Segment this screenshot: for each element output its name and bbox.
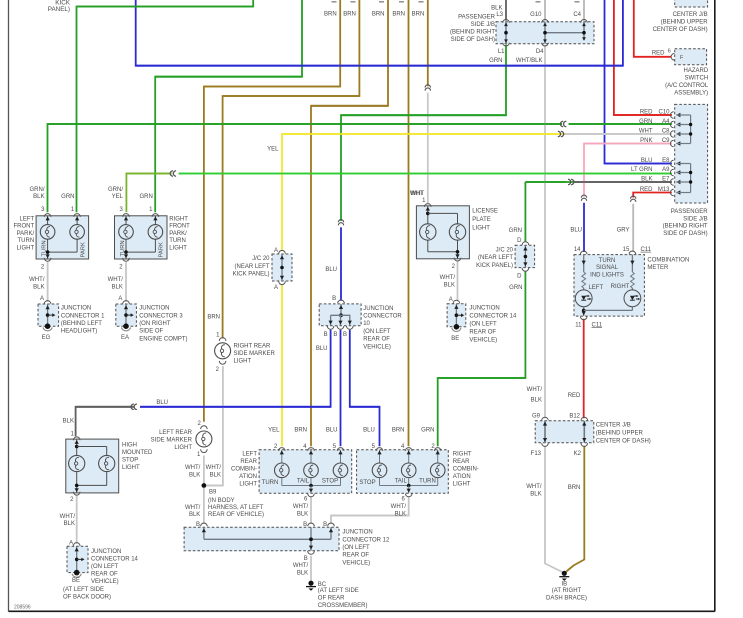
svg-text:11: 11	[575, 322, 582, 328]
svg-text:ATION: ATION	[453, 474, 471, 480]
svg-text:RED: RED	[640, 110, 653, 116]
wire BLU from JC10 middle to left rear combination pin 5	[340, 330, 342, 446]
right rear combination light	[357, 450, 449, 493]
svg-text:WHT/: WHT/	[527, 387, 543, 393]
wire GRY from connector to combination meter pin 15	[632, 204, 634, 252]
center J/B partial box (top right)	[675, 0, 708, 7]
svg-text:JUNCTION: JUNCTION	[469, 305, 499, 311]
svg-text:LIGHT: LIGHT	[169, 246, 187, 252]
svg-text:BE: BE	[72, 578, 80, 584]
svg-text:CONNECTOR 14: CONNECTOR 14	[469, 313, 517, 319]
svg-text:TURN: TURN	[120, 240, 126, 256]
svg-text:E7: E7	[662, 177, 670, 183]
svg-text:STOP: STOP	[322, 479, 338, 485]
svg-text:BC: BC	[318, 582, 327, 588]
wire WHT to passenger J/B pin C8	[565, 133, 672, 135]
passenger side J/B (right)	[675, 104, 708, 203]
svg-text:BRN: BRN	[324, 11, 337, 17]
svg-text:REAR OF VEHICLE): REAR OF VEHICLE)	[208, 512, 264, 518]
svg-text:GRN: GRN	[139, 194, 152, 200]
svg-text:WHT/: WHT/	[206, 465, 222, 471]
svg-text:GRN: GRN	[61, 194, 74, 200]
svg-text:WHT/: WHT/	[526, 484, 542, 490]
svg-text:LIGHT: LIGHT	[239, 482, 257, 488]
svg-text:WHT/: WHT/	[293, 563, 309, 569]
svg-text:G9: G9	[532, 414, 541, 420]
svg-text:VEHICLE): VEHICLE)	[91, 579, 119, 585]
wire BLU from connector to junction connector 10 pin B	[340, 227, 342, 300]
svg-text:BRN: BRN	[392, 11, 405, 17]
svg-text:BLK: BLK	[641, 177, 652, 183]
svg-text:A: A	[449, 297, 453, 303]
left rear combination light	[259, 450, 352, 493]
svg-text:J/C 20: J/C 20	[252, 256, 270, 262]
svg-text:JUNCTION: JUNCTION	[91, 549, 121, 555]
wire GRN/YEL from right front pin 3 to inline connector	[126, 174, 171, 213]
svg-text:LEFT: LEFT	[242, 452, 257, 458]
wire BLU from JC10 to high-mount stop light run	[140, 330, 331, 407]
svg-text:GRN: GRN	[639, 119, 652, 125]
svg-text:VEHICLE): VEHICLE)	[363, 344, 391, 350]
wire YEL from J/B C8 run down to left rear combination pin 2	[282, 134, 564, 251]
svg-text:6: 6	[668, 48, 671, 54]
wire BLU main horizontal (top)	[136, 0, 623, 66]
svg-text:TURN: TURN	[419, 479, 436, 485]
svg-text:B9: B9	[209, 490, 217, 496]
wire RED to passenger J/B pin C10	[614, 0, 672, 115]
svg-text:BLU: BLU	[326, 428, 338, 434]
svg-text:15: 15	[623, 247, 630, 253]
svg-text:(BEHIND RIGHT: (BEHIND RIGHT	[450, 30, 495, 36]
page border right	[714, 0, 716, 612]
wire WHT/BLK center J/B F13 to ground IB	[545, 446, 562, 572]
svg-text:CROSSMEMBER): CROSSMEMBER)	[318, 603, 368, 609]
svg-text:BRN: BRN	[294, 428, 307, 434]
svg-text:(BEHIND LEFT: (BEHIND LEFT	[61, 321, 102, 327]
svg-text:C11: C11	[641, 247, 652, 253]
wire BLU from connector to combination meter pin 14	[583, 203, 585, 252]
wire GRN from J/C 20 (D) down to right rear combination pin 2	[438, 271, 526, 446]
svg-text:SWITCH: SWITCH	[685, 76, 709, 82]
svg-text:GRN/: GRN/	[108, 187, 123, 193]
wire GRN from passenger J/B pin L1 to junction connector 10 run	[341, 45, 506, 221]
svg-text:B: B	[324, 332, 328, 338]
svg-text:B: B	[343, 332, 347, 338]
svg-text:TURN: TURN	[18, 238, 35, 244]
wire BRN 1 from top to left rear side marker pin 2	[204, 0, 340, 422]
svg-text:A4: A4	[662, 119, 670, 125]
svg-text:E8: E8	[662, 158, 670, 164]
svg-text:(NEAR LEFT: (NEAR LEFT	[234, 264, 269, 270]
svg-text:BLK: BLK	[530, 492, 541, 498]
svg-text:BLU: BLU	[316, 346, 328, 352]
svg-text:LIGHT: LIGHT	[174, 445, 192, 451]
svg-text:A: A	[274, 248, 278, 254]
svg-text:(AT LEFT SIDE: (AT LEFT SIDE	[318, 588, 359, 594]
wire BRN center J/B K2 to ground IB	[566, 446, 584, 572]
svg-text:K2: K2	[574, 451, 582, 457]
svg-text:PARK: PARK	[159, 242, 165, 257]
svg-text:YEL: YEL	[267, 146, 279, 152]
svg-text:BLK: BLK	[33, 285, 44, 291]
svg-text:PANEL): PANEL)	[48, 6, 70, 13]
svg-text:JUNCTION: JUNCTION	[363, 306, 393, 312]
wire WHT/BLK left rear side marker pin 1 to splice B9	[203, 456, 205, 486]
svg-text:CENTER J/B: CENTER J/B	[596, 423, 631, 429]
wire BRN 4 from top to right rear combination pin 4	[408, 0, 410, 446]
splice B9	[202, 483, 207, 488]
svg-text:(BEHIND RIGHT: (BEHIND RIGHT	[663, 224, 708, 230]
wire WHT from connector to license plate light pin 1	[427, 93, 429, 204]
svg-text:YEL: YEL	[112, 194, 124, 200]
wire GRN second loop to right front park/turn pin 1	[155, 0, 302, 212]
high mounted stop light	[66, 439, 119, 493]
svg-text:CONNECTOR: CONNECTOR	[363, 314, 402, 320]
svg-text:COMBINATION: COMBINATION	[647, 257, 689, 263]
svg-text:BLK: BLK	[210, 472, 221, 478]
svg-text:WHT/BLK: WHT/BLK	[516, 58, 543, 64]
svg-text:WHT/: WHT/	[108, 277, 124, 283]
wire BLU to passenger J/B pin E8	[605, 0, 672, 164]
svg-text:PASSENGER: PASSENGER	[458, 15, 496, 21]
svg-text:LICENSE: LICENSE	[472, 208, 498, 214]
svg-text:B12: B12	[569, 414, 580, 420]
ground IB	[562, 571, 567, 576]
svg-text:METER: METER	[647, 265, 669, 271]
svg-text:STOP: STOP	[122, 457, 138, 463]
svg-text:BLU: BLU	[570, 228, 582, 234]
svg-text:STOP: STOP	[359, 480, 375, 486]
svg-text:BE: BE	[451, 336, 459, 342]
svg-text:REAR OF: REAR OF	[342, 553, 369, 559]
svg-text:REAR OF: REAR OF	[91, 571, 118, 577]
svg-text:WHT: WHT	[411, 191, 425, 197]
svg-text:(IN BODY: (IN BODY	[208, 498, 235, 504]
svg-text:(ON LEFT: (ON LEFT	[363, 329, 391, 335]
svg-text:SIDE MARKER: SIDE MARKER	[151, 438, 193, 444]
wire WHT/BLK splice B9 to junction connector 12 pin B	[203, 486, 205, 525]
svg-text:B: B	[304, 556, 308, 562]
svg-text:RIGHT: RIGHT	[453, 452, 472, 458]
svg-text:D4: D4	[536, 49, 544, 55]
svg-text:BLK: BLK	[189, 512, 200, 518]
svg-text:C8: C8	[662, 129, 670, 135]
inline connector on GRN wire at A4 run	[560, 121, 563, 126]
wire BRN 3 from top to left rear combination pin 4	[311, 0, 388, 446]
svg-text:F13: F13	[531, 451, 542, 457]
svg-text:CONNECTOR 14: CONNECTOR 14	[91, 556, 139, 562]
svg-text:L1: L1	[498, 49, 505, 55]
svg-text:RIGHT: RIGHT	[611, 284, 630, 290]
svg-text:CENTER OF DASH): CENTER OF DASH)	[596, 439, 651, 445]
wire GRN from connector to J/C 20 (D)	[524, 182, 526, 242]
svg-text:ATION: ATION	[239, 474, 257, 480]
svg-text:C4: C4	[573, 12, 581, 18]
inline connector GRN to BLK	[568, 179, 571, 184]
svg-text:SIDE OF DASH): SIDE OF DASH)	[451, 37, 495, 43]
inline connector BLU to BLK	[131, 404, 134, 409]
svg-text:GRN: GRN	[489, 58, 502, 64]
svg-text:ENGINE COMPT): ENGINE COMPT)	[139, 336, 187, 342]
svg-text:(ON LEFT: (ON LEFT	[469, 321, 497, 327]
svg-text:FRONT: FRONT	[169, 224, 190, 230]
svg-text:(A/C CONTROL: (A/C CONTROL	[665, 83, 709, 89]
svg-text:FRONT: FRONT	[14, 224, 35, 230]
svg-text:RED: RED	[652, 51, 665, 57]
svg-text:OF REAR: OF REAR	[318, 596, 345, 602]
svg-text:SIDE OF DASH): SIDE OF DASH)	[663, 231, 707, 237]
wire RED from passenger J/B pin M13	[633, 193, 672, 198]
svg-text:SIDE OF: SIDE OF	[139, 329, 163, 335]
svg-text:(AT RIGHT: (AT RIGHT	[552, 588, 582, 594]
svg-text:REAR OF: REAR OF	[363, 337, 390, 343]
svg-text:REAR OF: REAR OF	[469, 329, 496, 335]
inline connector symbols (overlay)	[561, 121, 564, 126]
svg-text:LEFT REAR: LEFT REAR	[159, 430, 193, 436]
wire BRN 2 from top to right rear side marker pin 1	[223, 0, 360, 339]
svg-text:GRN: GRN	[509, 285, 522, 291]
svg-text:GRN: GRN	[421, 428, 434, 434]
svg-text:SIDE J/B: SIDE J/B	[471, 22, 495, 28]
wire to passenger J/B pin C4	[583, 0, 585, 21]
svg-text:WHT/: WHT/	[391, 504, 407, 510]
svg-text:(BEHIND UPPER: (BEHIND UPPER	[661, 20, 709, 26]
svg-text:WHT/: WHT/	[440, 275, 456, 281]
wire WHT/BLK license plate pin 2 to junction connector 14	[457, 262, 459, 301]
svg-text:BRN: BRN	[568, 485, 581, 491]
combination meter	[574, 255, 644, 317]
cut-off labels at top edge	[332, 1, 337, 3]
right front park/turn light	[115, 216, 168, 259]
wire GRN top-left loop to left front park/turn pin 1	[77, 0, 254, 212]
wire WHT/BLK right rear side marker pin 2 to splice B9	[204, 366, 223, 486]
svg-text:BLU: BLU	[641, 158, 653, 164]
svg-text:BLK: BLK	[189, 472, 200, 478]
svg-text:VEHICLE): VEHICLE)	[342, 560, 370, 566]
svg-text:CONNECTOR 12: CONNECTOR 12	[342, 537, 390, 543]
svg-text:(AT LEFT SIDE: (AT LEFT SIDE	[63, 587, 104, 593]
svg-text:PARK/: PARK/	[169, 231, 187, 237]
svg-text:SIDE J/B: SIDE J/B	[683, 216, 707, 222]
wire WHT/BLK stop light pin 2 to junction connector 14	[76, 495, 78, 543]
svg-text:HARNESS, AT LEFT: HARNESS, AT LEFT	[208, 505, 264, 511]
svg-text:HIGH: HIGH	[122, 442, 137, 448]
svg-text:RIGHT REAR: RIGHT REAR	[234, 343, 272, 349]
svg-text:GRN/: GRN/	[30, 187, 45, 193]
svg-text:D: D	[517, 273, 522, 279]
svg-text:PARK: PARK	[80, 242, 86, 257]
svg-text:SIGNAL: SIGNAL	[596, 265, 619, 271]
ground BC	[308, 581, 313, 586]
svg-text:LEFT: LEFT	[588, 285, 603, 291]
svg-text:BLK: BLK	[297, 571, 308, 577]
svg-text:HEADLIGHT): HEADLIGHT)	[61, 329, 97, 335]
svg-text:JUNCTION: JUNCTION	[139, 306, 169, 312]
svg-text:PNK: PNK	[640, 138, 652, 144]
svg-text:BLK: BLK	[297, 511, 308, 517]
page border bottom	[9, 610, 715, 612]
svg-text:TAIL: TAIL	[395, 479, 408, 485]
svg-text:TURN: TURN	[42, 240, 48, 256]
svg-text:A: A	[118, 296, 122, 302]
wire WHT/BLK right front pin 2 to junction connector 3	[125, 262, 127, 302]
svg-text:208596: 208596	[14, 604, 31, 610]
svg-text:WHT/: WHT/	[293, 504, 309, 510]
svg-text:LIGHT: LIGHT	[17, 246, 35, 252]
svg-text:C11: C11	[592, 322, 603, 328]
svg-text:(ON LEFT: (ON LEFT	[91, 564, 119, 570]
svg-text:BRN: BRN	[207, 315, 220, 321]
svg-text:J/C 20: J/C 20	[496, 247, 514, 253]
svg-text:A: A	[69, 540, 73, 546]
svg-text:LEFT: LEFT	[20, 216, 35, 222]
svg-text:COMBIN-: COMBIN-	[231, 467, 257, 473]
svg-text:CENTER OF DASH): CENTER OF DASH)	[653, 27, 708, 33]
svg-text:(NEAR LEFT: (NEAR LEFT	[478, 255, 513, 261]
svg-text:EG: EG	[42, 335, 51, 341]
svg-text:(ON RIGHT: (ON RIGHT	[139, 321, 171, 327]
svg-text:BLK: BLK	[33, 194, 44, 200]
wire BLK from passenger J/B pin E7	[575, 181, 672, 183]
svg-text:ASSEMBLY): ASSEMBLY)	[674, 91, 708, 97]
svg-text:IND LIGHTS: IND LIGHTS	[590, 272, 624, 278]
svg-text:GRY: GRY	[617, 228, 630, 234]
svg-text:RED: RED	[568, 393, 581, 399]
wire overlay horizontals	[77, 6, 254, 8]
svg-text:REAR: REAR	[453, 459, 470, 465]
svg-text:BLK: BLK	[531, 398, 542, 404]
inline connector BRN to WHT	[425, 85, 430, 88]
svg-text:CENTER J/B: CENTER J/B	[673, 12, 708, 18]
svg-text:RED: RED	[640, 187, 653, 193]
svg-text:BRN: BRN	[392, 428, 405, 434]
svg-text:VEHICLE): VEHICLE)	[469, 337, 497, 343]
svg-text:BLK: BLK	[63, 419, 74, 425]
svg-text:CONNECTOR 3: CONNECTOR 3	[139, 313, 183, 319]
wire RED to hazard switch pin 6	[634, 0, 671, 57]
svg-text:WHT/: WHT/	[185, 505, 201, 511]
wire WHT/BLK JC12 to ground BC	[310, 556, 312, 581]
svg-text:BLK: BLK	[64, 521, 75, 527]
svg-text:WHT/: WHT/	[185, 465, 201, 471]
svg-text:BLK: BLK	[444, 283, 455, 289]
svg-text:C9: C9	[662, 138, 670, 144]
svg-text:B: B	[333, 332, 337, 338]
svg-text:IB: IB	[561, 582, 567, 588]
svg-text:LIGHT: LIGHT	[472, 225, 490, 231]
svg-text:JUNCTION: JUNCTION	[61, 306, 91, 312]
inline connector YEL to WHT	[558, 131, 561, 136]
wire BRN 5 from top to inline connector	[427, 0, 429, 86]
wire RED from combination meter pin 11 to center J/B pin B12	[583, 319, 585, 418]
svg-text:(ON LEFT: (ON LEFT	[342, 545, 370, 551]
wire PNK from passenger J/B pin C9	[584, 144, 672, 197]
svg-text:TURN: TURN	[169, 238, 186, 244]
page border left	[8, 0, 10, 612]
svg-text:A: A	[40, 296, 44, 302]
inline connector on LT GRN wire	[170, 171, 173, 176]
svg-text:PARK/: PARK/	[17, 231, 35, 237]
wire WHT/BLK left front pin 2 to junction connector 1	[47, 262, 49, 302]
svg-text:10: 10	[363, 321, 370, 327]
svg-text:(BEHIND UPPER: (BEHIND UPPER	[596, 431, 644, 437]
svg-text:CONNECTOR 1: CONNECTOR 1	[61, 313, 105, 319]
left rear side marker light	[201, 426, 208, 429]
hazard switch (A/C control assembly)	[675, 49, 707, 65]
svg-text:BRN: BRN	[372, 11, 385, 17]
wire LT GRN to passenger J/B pin A9	[179, 173, 672, 175]
svg-text:TAIL: TAIL	[297, 479, 310, 485]
svg-text:OF BACK DOOR): OF BACK DOOR)	[63, 594, 111, 600]
svg-text:LIGHT: LIGHT	[122, 465, 140, 471]
svg-text:HAZARD: HAZARD	[684, 68, 709, 74]
left front park/turn light	[36, 216, 89, 259]
svg-text:KICK PANEL): KICK PANEL)	[233, 271, 270, 277]
svg-text:TURN: TURN	[262, 480, 279, 486]
wire to passenger J/B pin G10	[544, 0, 546, 21]
svg-text:WHT: WHT	[639, 129, 653, 135]
wire GRN continues to passenger J/B pin A4	[569, 123, 672, 125]
svg-text:MOUNTED: MOUNTED	[122, 450, 153, 456]
wire WHT/BLK from passenger J/B D4 down to center J/B pin G9	[544, 45, 546, 418]
svg-text:M13: M13	[658, 187, 670, 193]
svg-text:G10: G10	[530, 12, 542, 18]
svg-text:PLATE: PLATE	[472, 217, 491, 223]
passenger side J/B (top)	[496, 22, 594, 44]
svg-text:PASSENGER: PASSENGER	[671, 209, 709, 215]
svg-text:EA: EA	[121, 335, 129, 341]
svg-text:RIGHT: RIGHT	[169, 216, 188, 222]
wire BLK from connector to high mounted stop light pin 1	[76, 407, 134, 436]
svg-text:REAR: REAR	[240, 459, 257, 465]
svg-text:BLK: BLK	[112, 285, 123, 291]
svg-text:DASH BRACE): DASH BRACE)	[546, 595, 587, 601]
svg-text:A: A	[274, 285, 278, 291]
svg-text:TURN: TURN	[599, 258, 616, 264]
right rear side marker light	[219, 338, 226, 341]
svg-text:BRN: BRN	[343, 11, 356, 17]
inline connector PNK to BLU	[581, 195, 586, 198]
svg-text:BLK: BLK	[491, 5, 502, 11]
svg-text:JUNCTION: JUNCTION	[342, 530, 372, 536]
svg-text:LIGHT: LIGHT	[234, 359, 252, 365]
svg-text:WHT/: WHT/	[29, 277, 45, 283]
wire BLU from JC10 right to right rear combination pin 5	[350, 330, 380, 446]
svg-text:BLU: BLU	[325, 267, 337, 273]
svg-text:GRN: GRN	[509, 228, 522, 234]
wire BLK above passenger J/B pin L3	[505, 0, 507, 21]
svg-text:A9: A9	[662, 167, 670, 173]
svg-text:D: D	[517, 238, 522, 244]
svg-text:BLU: BLU	[363, 428, 375, 434]
svg-text:WHT/: WHT/	[60, 514, 76, 520]
svg-text:C10: C10	[658, 110, 670, 116]
svg-text:LT GRN: LT GRN	[631, 167, 652, 173]
svg-text:YEL: YEL	[268, 428, 280, 434]
svg-text:L3: L3	[496, 12, 503, 18]
svg-text:BLK: BLK	[395, 511, 406, 517]
wire GRN/BLK from left front pin 3 up/right to connector	[48, 124, 563, 212]
svg-text:B: B	[332, 296, 336, 302]
svg-text:SIDE MARKER: SIDE MARKER	[234, 351, 276, 357]
wire YEL below J/C 20 to left rear combination light	[281, 284, 283, 446]
wire WHT/BLK left rear combination pin 6 to JC12	[310, 497, 312, 524]
svg-text:14: 14	[574, 247, 581, 253]
svg-text:BLU: BLU	[156, 400, 168, 406]
svg-text:COMBIN-: COMBIN-	[453, 467, 479, 473]
license plate light	[416, 206, 469, 259]
svg-text:KICK PANEL): KICK PANEL)	[476, 263, 513, 269]
